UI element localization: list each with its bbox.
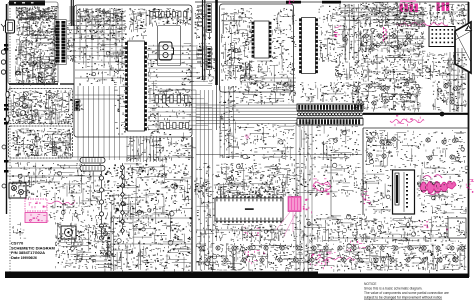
svg-text:subject to be changed for impr: subject to be changed for improvement wi…	[364, 296, 442, 300]
pink scribbles bottom right x350	[346, 241, 368, 251]
schematic top border	[195, 1, 469, 3]
video/audio section box A	[9, 89, 73, 124]
vertical wire pair x111	[111, 218, 114, 271]
schematic right border	[468, 2, 470, 277]
bus junction node	[440, 112, 445, 117]
vertical wires right of divider	[220, 86, 234, 158]
component cluster: above main IC	[129, 8, 148, 40]
bottom border extra-thick left segment	[5, 272, 318, 279]
vertical wires bottom right-of-center	[296, 122, 312, 271]
wires to CRT area	[340, 8, 424, 20]
component cluster: sync box parts	[221, 8, 255, 81]
component cluster: right of U601	[417, 168, 469, 214]
pink dash column near x384	[384, 27, 387, 42]
pink scribbles above IC U501 right	[313, 179, 329, 196]
jack oval on box A border lower	[6, 116, 9, 122]
pink wavy wire annotation bottom-left	[48, 201, 75, 204]
section boundary vertical x331	[330, 155, 332, 215]
transistor row bottom-center lower	[206, 258, 314, 262]
micom IC U501	[215, 196, 283, 223]
pink wires from highlighted group	[276, 212, 296, 236]
AV input jack J2	[1, 60, 5, 64]
resistor row second R211-R215	[160, 123, 189, 129]
small connector P201	[75, 100, 80, 111]
svg-text:NOTICE: NOTICE	[364, 282, 377, 286]
component cluster: left of divider labels	[195, 5, 210, 40]
tuner TU101 box	[6, 20, 15, 33]
pink outline drawing above micom right	[313, 182, 331, 192]
component cluster: left sparse bottom	[12, 223, 26, 239]
pink annotation wavy line mid-right	[390, 119, 424, 123]
component cluster: right bottom band	[352, 216, 466, 245]
pink annotation wavy line top-right	[396, 22, 448, 25]
component cluster: bottom-right dense rows	[337, 243, 467, 273]
connector column with diamond pins	[122, 163, 124, 235]
pink wavy annotation bottom center	[315, 257, 355, 260]
ribbon cable block row upper	[297, 104, 363, 111]
component cluster: tuner lower parts	[15, 36, 59, 86]
component cluster: below micom	[215, 224, 286, 244]
component cluster: between tuner and ladder	[17, 21, 59, 38]
ribbon cable block row lower	[297, 119, 363, 126]
SAW filter SF101 box	[158, 26, 181, 66]
component cluster: power supply dense field	[104, 163, 193, 273]
pink marks left of micom bottom	[244, 227, 260, 237]
wire bundle to CRT board	[196, 105, 297, 124]
component cluster: video area parts	[335, 4, 362, 81]
pink marks lower-left of right box	[362, 191, 370, 204]
pink scribbles bottom center-right	[318, 252, 331, 263]
CRT bell (picture tube)	[455, 22, 471, 73]
pink marks right edge	[466, 179, 474, 193]
component cluster: below divider connectors	[196, 43, 216, 84]
wire bus ladder to main IC	[67, 21, 126, 55]
component cluster: IF sparse area	[78, 43, 126, 86]
component cluster: resistor row below SAW	[155, 88, 193, 108]
tuner section box thick bottom edge	[9, 83, 58, 85]
heavy bus line to lower-right box	[363, 113, 468, 115]
component cluster: top-right dense rows	[360, 2, 427, 29]
component cluster: above micom IC	[215, 163, 291, 199]
IF box inner verticals	[80, 8, 122, 76]
component cluster: lower-right box row1	[365, 130, 394, 168]
main jungle IC U201	[125, 41, 147, 131]
component cluster: IF mid parts	[76, 23, 127, 42]
divider bar lower thin continuation	[216, 85, 218, 130]
pink highlighted part near connector	[334, 26, 342, 37]
wires under IC-A to bundle	[240, 78, 296, 82]
CRT socket box	[429, 27, 455, 47]
power connector CN601 round pins	[101, 170, 103, 240]
component cluster: center-left of micom	[196, 163, 217, 244]
capacitor row top C201-C207	[150, 12, 187, 18]
video amp IC U302	[299, 18, 318, 74]
component cluster: below ribbon right	[298, 123, 360, 161]
top-left black header bar	[9, 1, 45, 6]
IF section box outline	[74, 5, 192, 137]
pink tiny top-center	[289, 0, 295, 4]
component cluster: IF top row	[77, 8, 126, 24]
component cluster: lower-right box right parts	[393, 130, 468, 169]
component cluster: far-right mid parts	[432, 80, 466, 111]
component cluster: RGB transistor row	[360, 28, 426, 54]
component cluster: right of micom top	[291, 163, 361, 197]
pink marks below U601	[446, 229, 459, 239]
pink dashed service box	[25, 199, 47, 211]
transistor row bottom-center upper	[200, 246, 328, 250]
notice text block	[364, 282, 449, 300]
section divider line x=192 full height	[191, 137, 193, 273]
wires IC right side to divider	[148, 46, 212, 130]
component cluster: mid-right transistor rows	[352, 80, 422, 112]
CRT return wires down	[450, 48, 462, 112]
board connector P102 lower	[207, 47, 212, 69]
pink highlight bars top-right group A	[400, 1, 418, 13]
video/audio section box B	[9, 126, 73, 158]
component cluster: sync area above bundle	[241, 82, 297, 105]
component cluster: tuner/AGC parts	[16, 6, 59, 22]
component cluster: right of ribbon top	[300, 82, 359, 103]
high voltage warning triangle	[466, 26, 472, 31]
pink scribbles bottom center	[245, 250, 265, 264]
component cluster: right of CRT socket lower	[425, 52, 467, 81]
bottom border thick bar	[5, 274, 469, 279]
transistors lower-right box	[368, 137, 458, 160]
vertical regulator IC U601	[393, 170, 415, 214]
pink highlighted component group center-bottom	[288, 197, 301, 212]
component cluster: box B interior	[11, 128, 73, 158]
component cluster: below IC labels	[127, 138, 197, 162]
tuner section box outline	[8, 2, 58, 84]
RGB drive transistors Q301-Q306	[364, 34, 410, 48]
pink scribbles bottom center extra	[310, 250, 335, 269]
transistor row bottom-right lower	[342, 258, 458, 262]
pink marks right of U601 lower	[419, 221, 428, 228]
svg-text:The value of components and so: The value of components and some partial…	[364, 291, 449, 295]
svg-text:Since this is a basic schemati: Since this is a basic schematic diagram.	[364, 287, 423, 291]
pink faint center	[245, 134, 250, 139]
IF IC U101 pin ladder	[55, 20, 66, 65]
sync section box outline	[220, 4, 294, 92]
misc long horizontals bottom	[110, 218, 466, 244]
section boundary line y155 center	[196, 154, 362, 156]
pink parts inside service box	[29, 202, 47, 209]
degauss coil box with plug symbols	[9, 183, 26, 198]
component cluster: right of divider mid	[219, 86, 240, 159]
IF box inner horizontals	[75, 62, 124, 78]
thick divider bar x=216	[215, 0, 218, 85]
left edge connector pins	[4, 44, 9, 173]
component cluster: right of SAW	[181, 43, 194, 85]
double vertical line x202-205	[203, 0, 205, 80]
video out transistors mid-right	[356, 84, 460, 105]
wire bundle mid-left	[78, 86, 120, 160]
top border dark segment near x322	[322, 1, 341, 4]
arrow below connector P101	[208, 33, 211, 39]
component cluster: transformer area parts	[55, 222, 112, 269]
transistor chain in box A	[19, 96, 32, 119]
SAW filter body	[159, 42, 174, 60]
ribbon cable circle row middle	[297, 112, 363, 118]
board connector P101 upper	[207, 4, 212, 33]
component cluster: box A interior	[11, 90, 73, 125]
component cluster: bottom center rows	[196, 243, 335, 272]
jack oval on box A border upper	[6, 91, 9, 97]
pink text in value table	[29, 214, 49, 222]
vertical wires center-bottom	[196, 90, 213, 270]
label box lower-right	[448, 218, 466, 238]
misc verticals top-right	[345, 4, 359, 60]
component cluster: label box interior	[450, 221, 465, 237]
left vertical bus wire	[6, 4, 8, 214]
horizontal wires left-mid	[6, 95, 124, 182]
component cluster: ladder pin labels	[67, 23, 77, 63]
component cluster: below sync ICs	[240, 60, 273, 89]
component cluster: left of U601	[360, 169, 392, 216]
wire bus top-left verticals	[70, 6, 77, 34]
sync IC U301	[252, 21, 272, 58]
antenna symbol	[1, 24, 6, 31]
component cluster: right of IC top	[149, 8, 192, 27]
component cluster: below RGB row	[361, 53, 427, 82]
pink flower scribbles lower-right	[420, 175, 456, 195]
component cluster: below ribbon left	[240, 123, 295, 162]
component cluster: micom labels above	[217, 186, 285, 199]
pink outline marks left of group	[303, 199, 312, 214]
component cluster: left-bottom parts	[48, 163, 101, 222]
switching transformer T601	[61, 226, 76, 239]
component cluster: main IC left pin labels	[114, 43, 129, 134]
component cluster: labels left of micom	[194, 180, 209, 198]
pink scribble mid-right	[395, 115, 421, 126]
horizontal capsule component L602 lower	[80, 166, 105, 172]
top border dark segment near x286	[286, 1, 301, 4]
pink value table	[25, 213, 47, 223]
AV input jack J3	[1, 70, 5, 74]
svg-text:Date 1999/06/26: Date 1999/06/26	[11, 255, 37, 260]
schematic outer border (dashed left edge)	[9, 8, 11, 272]
component cluster: IC pin labels right	[147, 45, 159, 134]
connector label column	[197, 6, 203, 62]
component cluster: sync box right parts	[272, 8, 297, 88]
double vertical line top-left x71-73	[71, 0, 73, 26]
component cluster: bottom mid band y105-160 left	[150, 110, 192, 163]
component cluster: left edge lower parts	[11, 162, 49, 200]
component cluster: CRT top parts	[427, 4, 468, 26]
title block text	[11, 241, 55, 260]
left edge lower jacks	[2, 145, 6, 149]
resistor row R201-R205	[155, 95, 188, 103]
AV input jack J1	[1, 50, 5, 54]
wire bundle below main IC	[127, 136, 160, 162]
pink highlight bars top-right group B	[437, 3, 450, 12]
arrow below connector P102	[208, 70, 211, 76]
CRT socket pin grid	[432, 29, 454, 43]
transistor row bottom-right upper	[338, 246, 464, 250]
boundary wire y157	[6, 157, 192, 161]
lower-right section box outline	[363, 128, 468, 215]
component cluster: left-mid small conn	[74, 100, 84, 110]
component cluster: right of video IC	[319, 6, 338, 63]
horizontal capsule component L601 upper	[80, 158, 105, 164]
component cluster: below pink group	[291, 214, 361, 243]
